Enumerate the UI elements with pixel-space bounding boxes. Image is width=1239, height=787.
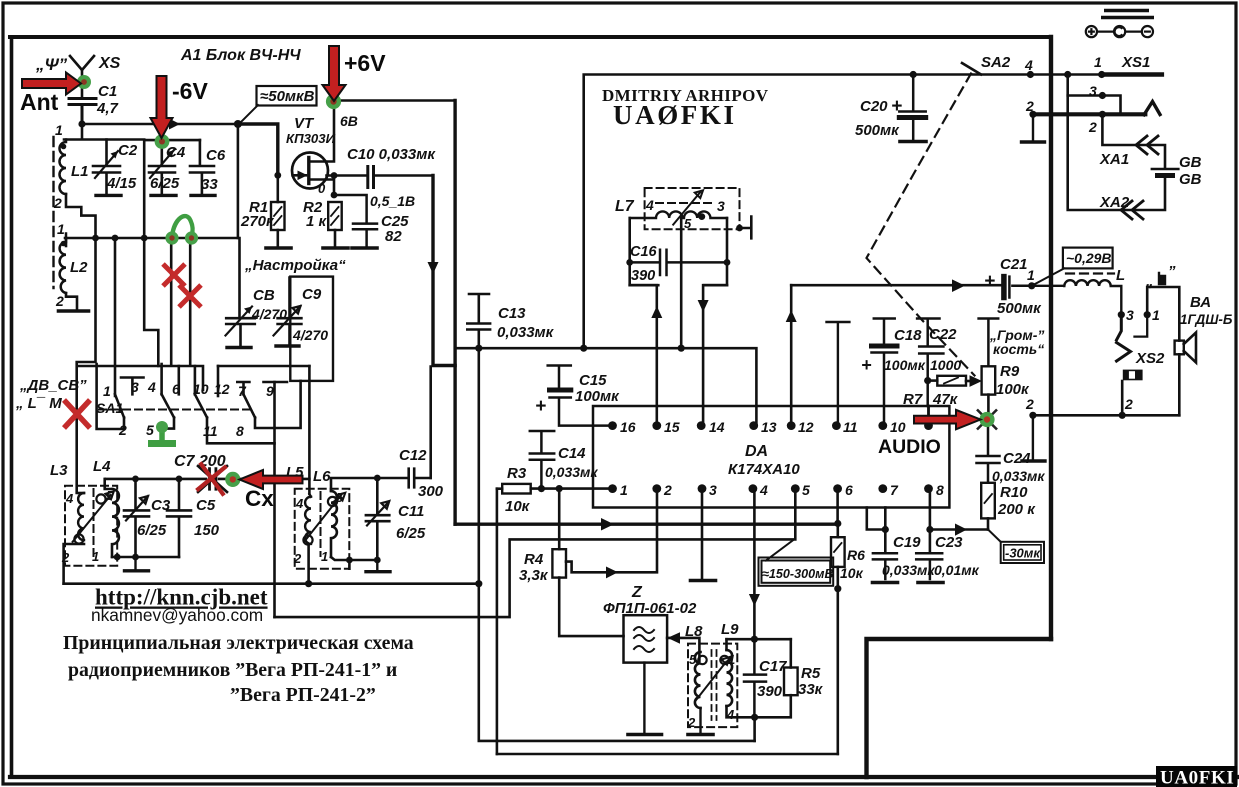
svg-text:4: 4 <box>726 707 735 722</box>
svg-text:15: 15 <box>664 419 680 435</box>
svg-text:1 к: 1 к <box>306 213 328 230</box>
core L8/L9 dashed <box>712 650 717 720</box>
svg-text:6В: 6В <box>340 113 358 129</box>
capacitor C25 <box>334 195 377 247</box>
wire L2 pin1 up to band wire <box>65 238 68 246</box>
svg-text:L6: L6 <box>313 468 331 485</box>
callout line 150-300mV <box>766 540 794 561</box>
svg-text:C11: C11 <box>398 503 424 520</box>
arrow down on C10 line <box>428 262 439 274</box>
wire band row y=238 <box>65 237 238 240</box>
wire L8 to Z with arrow <box>667 638 699 661</box>
inner block frame right edge <box>1049 37 1053 639</box>
svg-text:C5: C5 <box>196 497 216 514</box>
wire pin15 drop <box>630 285 657 425</box>
svg-text:100к: 100к <box>996 381 1030 398</box>
svg-text:1: 1 <box>620 482 628 498</box>
transistor VT gate bar <box>307 158 310 184</box>
wire L9 top row <box>727 638 791 641</box>
svg-text:10к: 10к <box>505 498 531 515</box>
L9 bottom lead <box>727 706 755 717</box>
node bus C13 <box>475 345 482 352</box>
ground SA2 pin2 <box>1022 114 1045 142</box>
svg-text:К174ХА10: К174ХА10 <box>728 461 800 478</box>
IC DA K174XA10 box <box>593 406 949 508</box>
terminal bar C9 <box>276 344 299 347</box>
svg-text:C14: C14 <box>558 445 586 462</box>
node pin2 left <box>1029 111 1036 118</box>
transformer L5/L6 dashed box <box>295 489 350 569</box>
svg-text:C24: C24 <box>1003 450 1031 467</box>
wire antenna to L1 <box>64 124 144 140</box>
svg-text:270к: 270к <box>240 213 275 230</box>
node pin2 right <box>1099 111 1106 118</box>
svg-text:4: 4 <box>147 379 156 395</box>
node antenna junction <box>78 120 85 127</box>
wire L6 pin2 down <box>307 544 310 584</box>
svg-text:10к: 10к <box>840 565 864 581</box>
svg-text:nkamnev@yahoo.com: nkamnev@yahoo.com <box>91 605 263 625</box>
SA1 contact 7 stub <box>237 382 249 394</box>
wire C7 to L6 pin4 column <box>219 478 309 481</box>
red arrow Cx <box>240 470 303 489</box>
L7 right rail <box>704 218 727 285</box>
svg-text:~0,29В: ~0,29В <box>1066 250 1112 266</box>
svg-text:3: 3 <box>709 482 717 498</box>
svg-text:GB: GB <box>1179 171 1202 188</box>
svg-text:-30мк: -30мк <box>1005 546 1041 561</box>
svg-text:ФП1П-061-02: ФП1П-061-02 <box>603 600 697 617</box>
node R6 bottom <box>834 585 841 592</box>
svg-text:L: L <box>1116 267 1125 284</box>
L1 winding start dot <box>61 144 67 150</box>
SA1 lever 1-2 <box>115 394 124 417</box>
wire pin12 drop <box>790 285 793 425</box>
callout box 0.29V <box>1063 248 1113 269</box>
capacitor C18 electrolytic with terminal <box>872 319 898 426</box>
svg-text:C13: C13 <box>498 305 526 322</box>
audio out rail y=285 <box>791 284 1002 287</box>
resistor R6 <box>836 524 839 538</box>
wire thick bottom feed y=524 to pin6 <box>455 523 838 526</box>
red arrow +6V <box>323 46 346 101</box>
capacitor C4 variable <box>149 140 175 194</box>
svg-text:≈150-300мВ: ≈150-300мВ <box>762 567 834 581</box>
inner block frame left edge <box>10 37 14 776</box>
svg-text:XS1: XS1 <box>1121 54 1150 71</box>
wire top rail from bus corner to SA2 <box>584 75 1162 349</box>
svg-text:А1 Блок ВЧ-НЧ: А1 Блок ВЧ-НЧ <box>180 47 301 64</box>
green node audio <box>979 412 994 427</box>
svg-text:14: 14 <box>709 419 725 435</box>
filter Z symbol <box>634 627 654 652</box>
L7 center tap down to bus <box>680 218 683 348</box>
wire L6 pin1 bottom row <box>331 557 377 560</box>
L6 left pin2 dot <box>303 535 312 544</box>
capacitor C23 <box>916 553 942 579</box>
green node +6V <box>326 94 341 109</box>
capacitor C13 with top terminal <box>467 294 490 330</box>
green ground at SA1 pin5 <box>159 429 165 441</box>
svg-text:GB: GB <box>1179 154 1202 171</box>
capacitor C16 inline <box>630 250 727 275</box>
node R2/C25 <box>331 192 338 199</box>
svg-text:„: „ <box>1145 273 1154 290</box>
svg-text:100мк: 100мк <box>884 357 926 373</box>
svg-text:Z: Z <box>631 584 643 601</box>
capacitor C19 <box>873 553 897 579</box>
SA1 pin8 step to C9 box <box>255 381 301 428</box>
resistor R1 <box>276 175 279 202</box>
svg-text:2: 2 <box>1124 396 1133 412</box>
inner block frame bottom edge <box>10 775 1237 779</box>
callout -30mk <box>988 530 1001 542</box>
node wire583 L6 pin2 <box>305 580 312 587</box>
svg-text:500мк: 500мк <box>997 300 1042 317</box>
svg-text:390: 390 <box>757 683 783 700</box>
wire L3 pin4 column with band change X <box>79 492 84 495</box>
svg-text:6/25: 6/25 <box>150 175 180 192</box>
arrow up pin12 <box>786 310 797 322</box>
svg-text:Cx: Cx <box>245 486 274 511</box>
IC top pin dots <box>608 421 617 430</box>
XS1 pin2 open contact <box>1144 102 1160 115</box>
SA1 contact 4 stub <box>160 364 163 394</box>
capacitor C21 electrolytic <box>1009 277 1031 298</box>
svg-text:1: 1 <box>1094 54 1102 70</box>
L7 pin3 dot <box>698 213 705 220</box>
wire pin9 stub <box>927 406 930 426</box>
transistor VT circle <box>292 153 328 189</box>
wire C10 to down line <box>375 174 433 177</box>
svg-text:8: 8 <box>936 482 944 498</box>
ground L2 <box>59 309 89 313</box>
transformer L3/L4 dashed box <box>65 486 117 566</box>
ground L8 <box>688 708 713 735</box>
svg-text:C22: C22 <box>929 326 957 343</box>
SA1 pin2 step up to routing bar <box>97 364 124 429</box>
svg-text:„Настройка“: „Настройка“ <box>244 257 346 274</box>
resistor R10 <box>981 483 995 519</box>
svg-text:C21: C21 <box>1000 256 1028 273</box>
node source <box>331 172 338 179</box>
node R3-C14 <box>538 485 545 492</box>
node R3-R4 <box>556 485 563 492</box>
red X band2 <box>179 285 201 307</box>
svg-text:+: + <box>535 396 546 417</box>
ground C11 <box>366 560 390 572</box>
node 2 left <box>1029 412 1036 419</box>
svg-text:≈50мкВ: ≈50мкВ <box>260 88 315 105</box>
svg-text:R5: R5 <box>801 665 821 682</box>
wire -6V feed y=124 <box>82 123 238 126</box>
svg-text:500мк: 500мк <box>855 122 900 139</box>
green node jumper b <box>185 231 198 244</box>
ground pin3 <box>691 579 716 583</box>
wire L4 pin1 to C3/C5 ground row <box>112 556 179 559</box>
svg-text:кость“: кость“ <box>993 341 1044 357</box>
svg-text:C9: C9 <box>302 286 322 303</box>
wire bottom bus y=741 <box>479 584 755 741</box>
svg-text:R7: R7 <box>903 391 923 408</box>
capacitor C6 <box>190 140 214 194</box>
node x=479 at wire583 <box>475 580 482 587</box>
potentiometer R9 <box>979 319 999 367</box>
green node antenna <box>77 75 91 89</box>
ground R2 <box>323 246 348 250</box>
svg-text:„ L¯ М: „ L¯ М <box>15 395 62 412</box>
wire gate feed thick <box>238 124 278 175</box>
XS1 pin3 wire <box>1068 75 1121 115</box>
svg-text:XS: XS <box>98 55 121 72</box>
svg-text:5: 5 <box>336 490 344 505</box>
SA1 contact 10 stub <box>190 238 195 394</box>
node L1 step at band wire <box>92 235 99 242</box>
wire jack1 to speaker <box>1147 287 1179 341</box>
capacitor C5 <box>167 479 191 557</box>
wire pin9 to audio node <box>929 406 989 420</box>
SA1 contact 3 T-stub <box>121 378 144 395</box>
node jack 1 <box>1144 311 1151 318</box>
wire ground column x=479 down <box>477 331 480 584</box>
node box edge at band wire <box>141 235 148 242</box>
inductor L speaker choke <box>1032 280 1122 315</box>
svg-text:AUDIO: AUDIO <box>878 436 941 458</box>
svg-text:C19: C19 <box>893 534 921 551</box>
svg-text:4: 4 <box>645 197 654 213</box>
transistor VT gate arrow <box>293 174 307 177</box>
red X L3 feed <box>64 400 90 428</box>
svg-text:0: 0 <box>318 181 326 196</box>
battery loop wire <box>1068 96 1165 211</box>
resistor R4 <box>558 489 561 550</box>
wire C9 box to L6 pin4 <box>308 366 311 494</box>
svg-text:150: 150 <box>194 522 220 539</box>
svg-text:L7: L7 <box>615 198 635 215</box>
wire pin14 drop <box>703 285 727 425</box>
SA1 routing bar left y=366 <box>79 366 203 390</box>
svg-text:UAØFKI: UAØFKI <box>613 100 737 130</box>
svg-text:„ДВ_СВ”: „ДВ_СВ” <box>19 377 87 394</box>
arrow on audio rail <box>952 279 965 292</box>
node C5 top <box>176 476 183 483</box>
battery GB <box>1152 168 1178 171</box>
node C16 left <box>626 259 633 266</box>
jack XS2 contact <box>1117 315 1122 340</box>
svg-text:C23: C23 <box>935 534 963 551</box>
capacitor C22 with terminal <box>917 319 943 407</box>
svg-text:ВА: ВА <box>1190 294 1211 311</box>
L3 pin dots <box>96 494 105 503</box>
L6 adjust arrow <box>304 493 345 542</box>
capacitor C3 variable <box>124 479 149 557</box>
svg-text:C16: C16 <box>630 244 658 260</box>
svg-text:12: 12 <box>214 381 230 397</box>
svg-text:1: 1 <box>55 122 63 138</box>
node L4 pin1 <box>114 554 121 561</box>
svg-text:9: 9 <box>266 383 274 399</box>
wire pin7 side stub <box>867 508 886 530</box>
jack XS2 pin1 fixed contact <box>1135 315 1148 337</box>
svg-text:0,01мк: 0,01мк <box>934 562 980 578</box>
callout box 50uV <box>257 86 317 106</box>
svg-text:47к: 47к <box>932 391 959 408</box>
ground Z <box>628 663 662 735</box>
switch SA2 lever <box>962 63 981 75</box>
wire pin11 terminal <box>827 322 850 426</box>
svg-text:-6V: -6V <box>172 78 208 104</box>
node C21 out <box>1028 282 1035 289</box>
plug XA2 chevrons <box>1121 201 1143 219</box>
wire L2 pin2 to ground <box>66 293 77 309</box>
capacitor C11 variable <box>366 478 389 560</box>
svg-text:0,033мк: 0,033мк <box>545 464 598 480</box>
red X over C7 <box>197 463 227 496</box>
svg-text:2: 2 <box>55 293 64 309</box>
svg-text:R4: R4 <box>524 551 544 568</box>
svg-text:1: 1 <box>92 549 99 564</box>
IC bottom pin dots <box>608 484 617 493</box>
svg-text:1: 1 <box>57 221 65 237</box>
SA1 pin5 step <box>166 418 174 429</box>
inductor L7 <box>630 211 727 218</box>
red X over audio node <box>977 410 997 430</box>
box around C4 C6 <box>144 140 200 237</box>
ground C25 <box>352 246 377 250</box>
capacitor C24 <box>977 419 1000 482</box>
svg-text:L9: L9 <box>721 621 739 638</box>
red arrow -6V <box>151 76 173 138</box>
svg-text:R3: R3 <box>507 465 527 482</box>
node C11 bottom <box>374 557 381 564</box>
svg-text:2: 2 <box>118 422 127 438</box>
svg-text:1: 1 <box>103 383 111 399</box>
svg-text:1ГДШ-Б: 1ГДШ-Б <box>1180 312 1233 327</box>
inner block frame A1 top edge <box>10 35 1051 39</box>
svg-text:13: 13 <box>761 419 777 435</box>
svg-text:7: 7 <box>238 383 247 399</box>
SA1 lever 10-11 <box>195 394 207 417</box>
arrow on R4 tap wire <box>606 567 618 579</box>
svg-text:1: 1 <box>1027 267 1035 283</box>
svg-text:6: 6 <box>845 482 853 498</box>
svg-text:0,033мк: 0,033мк <box>882 562 935 578</box>
XS1 pin2 thick wire <box>1033 112 1145 116</box>
inductor L3 <box>78 493 84 540</box>
svg-text:6/25: 6/25 <box>396 525 426 542</box>
wire pin3 to ground <box>701 489 704 578</box>
capacitor C10 <box>368 167 374 188</box>
svg-text:С6: С6 <box>206 147 226 164</box>
node C3 top <box>132 476 139 483</box>
tank L7 dashed box <box>645 188 740 229</box>
L8/L9 adjust arrow <box>696 657 730 701</box>
svg-text:XA1: XA1 <box>1099 151 1129 168</box>
core L1/L2 dashed <box>52 137 54 288</box>
svg-text:1: 1 <box>321 549 328 564</box>
svg-text:+: + <box>891 96 902 117</box>
battery polarity indicator top right <box>1104 9 1149 12</box>
L2 winding start dot <box>61 241 67 247</box>
capacitor C14 with terminal <box>530 431 554 489</box>
terminal bar node2 <box>1022 415 1045 461</box>
red arrow AUDIO <box>914 410 981 429</box>
svg-text:200 к: 200 к <box>997 501 1036 518</box>
svg-text:5: 5 <box>684 216 692 231</box>
L6 right pin5 dot <box>328 497 337 506</box>
arrow on y=524 wire <box>601 518 614 531</box>
wire R4 bottom to Z <box>559 578 623 637</box>
wire x=237.9 junction down to band wire <box>237 124 240 238</box>
node pin3 <box>1099 92 1106 99</box>
svg-text:R9: R9 <box>1000 363 1020 380</box>
svg-text:2: 2 <box>1025 98 1034 114</box>
L7 adjust arrow <box>673 190 703 224</box>
svg-text:2: 2 <box>293 551 302 566</box>
SA1 lever 4-5 <box>162 394 174 417</box>
L3/L4 adjust arrow <box>73 492 114 542</box>
svg-text:C4: C4 <box>166 144 186 161</box>
callout line 50uV <box>240 105 259 124</box>
inductor L4 <box>112 489 119 557</box>
svg-text:„Ψ”: „Ψ” <box>35 55 68 74</box>
L3 pin2 lead <box>64 544 84 584</box>
capacitor C1 <box>69 99 96 125</box>
SA1 contact 6 stub <box>171 238 179 394</box>
svg-text:1: 1 <box>1152 307 1160 323</box>
svg-text:L1: L1 <box>71 163 89 180</box>
svg-text:33к: 33к <box>798 681 824 698</box>
capacitor C17 <box>744 639 766 717</box>
svg-text:5: 5 <box>802 482 810 498</box>
antenna XS <box>70 56 94 97</box>
svg-text:4: 4 <box>65 491 74 506</box>
node SA2 pin4 <box>1027 71 1034 78</box>
SA1 contact 9 T-stub <box>264 381 288 384</box>
svg-text:SA1: SA1 <box>96 400 123 416</box>
wire bottom speaker row y=415 <box>1033 414 1179 417</box>
svg-text:1: 1 <box>728 652 735 667</box>
svg-text:1000: 1000 <box>930 357 961 373</box>
svg-text:300: 300 <box>418 483 444 500</box>
capacitor C9 variable <box>278 278 302 345</box>
svg-text:C15: C15 <box>579 372 607 389</box>
svg-text:33: 33 <box>201 176 218 193</box>
L7 pin3 terminal bar <box>736 225 743 232</box>
svg-text:XS2: XS2 <box>1135 350 1165 367</box>
node 2 jack <box>1119 412 1126 419</box>
capacitor C15 electrolytic with terminal <box>548 366 613 426</box>
transistor VT drain lead <box>310 101 335 162</box>
wire VT source to C10 <box>327 174 367 177</box>
svg-text:VT: VT <box>294 115 315 132</box>
L7 left rail <box>630 218 659 285</box>
capacitor CB variable <box>226 238 255 346</box>
ground C3 <box>125 557 149 571</box>
svg-text:4: 4 <box>1024 57 1033 73</box>
node bus L7 tap <box>678 345 685 352</box>
svg-text:16: 16 <box>620 419 636 435</box>
node R7/C22 <box>924 377 931 384</box>
svg-text:R6: R6 <box>847 547 865 563</box>
wire R3 left down to bottom bus <box>496 489 499 754</box>
terminal bar C6 <box>191 194 215 197</box>
transformer L8/L9 dashed box <box>688 644 737 728</box>
svg-text:7: 7 <box>890 482 899 498</box>
svg-text:C3: C3 <box>151 497 171 514</box>
SA1 dashed axis <box>99 409 251 411</box>
wire pin11 column down <box>273 382 276 617</box>
